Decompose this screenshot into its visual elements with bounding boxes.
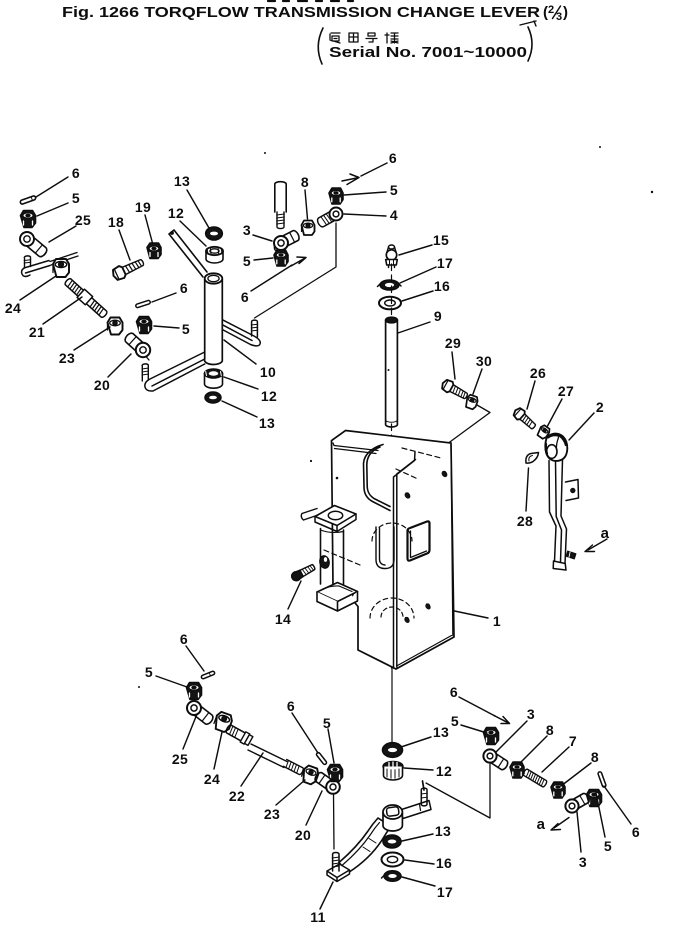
leader 5 — [37, 203, 68, 216]
thin rod from bracket — [50, 253, 78, 266]
small stud at lever 2 foot (dark) — [566, 551, 576, 559]
svg-text:8: 8 — [301, 174, 309, 190]
housing hem along top-left — [333, 443, 378, 454]
leader 6 — [292, 713, 318, 753]
leader 13 — [187, 190, 209, 228]
svg-text:17: 17 — [437, 884, 453, 900]
leader 13 — [401, 737, 431, 747]
svg-text:20: 20 — [295, 827, 311, 843]
svg-text:): ) — [563, 4, 568, 21]
leader 1 — [455, 611, 489, 618]
rod 9 — [386, 317, 398, 427]
nut 5 (top-left, dark) — [21, 211, 36, 228]
arrow 6 (pointing down-right) + leader — [459, 697, 510, 724]
leader 8 — [305, 190, 308, 219]
svg-text:20: 20 — [94, 377, 110, 393]
ring 13 (below lever 11, dark) — [383, 835, 401, 848]
washer 16 (bottom) — [382, 853, 404, 867]
svg-text:17: 17 — [437, 255, 453, 271]
svg-text:6: 6 — [180, 280, 188, 296]
svg-text:18: 18 — [108, 214, 124, 230]
leader 23 — [276, 780, 305, 805]
leader 17 b — [402, 877, 435, 886]
leader 14 — [288, 581, 301, 609]
bracket under 25 with stud — [22, 256, 50, 277]
svg-text:6: 6 — [180, 631, 188, 647]
kanji 機 (drawn) — [385, 33, 398, 43]
screw 7 (threaded stud) — [522, 768, 547, 787]
nut 27 — [536, 424, 551, 440]
kanji 適 (drawn) — [330, 33, 340, 43]
left arm of 10 with stud — [142, 352, 205, 391]
housing holes on right face — [403, 470, 448, 624]
svg-text:5: 5 — [451, 713, 459, 729]
nut 5 (bottom-left, dark) — [187, 683, 202, 700]
nut 5 (mid, dark) — [137, 317, 152, 334]
svg-text:19: 19 — [135, 199, 151, 215]
nut 8 (top) — [302, 221, 315, 236]
svg-text:5: 5 — [390, 182, 398, 198]
svg-text:12: 12 — [168, 205, 184, 221]
svg-text:26: 26 — [530, 365, 546, 381]
svg-text:3: 3 — [579, 854, 587, 870]
pin 28 (cotter clip) — [526, 453, 539, 464]
pin 6 (bottom-left) — [201, 671, 215, 680]
leader 3 a — [496, 721, 527, 752]
svg-text:7: 7 — [569, 733, 577, 749]
lever 11 boss (pivot cylinder) — [383, 805, 402, 831]
leader 27 — [547, 399, 562, 427]
leader 7 — [542, 747, 569, 772]
pin 6 (mid-left) — [135, 300, 150, 308]
svg-text:12: 12 — [436, 763, 452, 779]
svg-text:Fig. 1266 TORQFLOW TRANSMI: Fig. 1266 TORQFLOW TRANSMISSION CHANGE L… — [62, 4, 540, 21]
leader 29 — [452, 352, 455, 379]
bushing 12 (below tube) — [205, 369, 223, 388]
cropped text remnants at very top — [268, 0, 353, 2]
leader 20 — [306, 791, 322, 825]
svg-text:3: 3 — [556, 11, 562, 23]
pin 6 (above 20 bottom) — [316, 752, 327, 765]
svg-text:27: 27 — [558, 383, 574, 399]
leader 12 (tube) — [224, 377, 258, 389]
flange side bracket step — [301, 509, 318, 521]
leader 16 — [402, 291, 433, 301]
svg-text:25: 25 — [172, 751, 188, 767]
svg-text:8: 8 — [546, 722, 554, 738]
svg-text:15: 15 — [433, 232, 449, 248]
washer 16 (top) — [379, 297, 401, 310]
bushing 12 (below ring, knurled) — [383, 762, 403, 781]
ring 13 (below tube, dark) — [205, 392, 221, 403]
bolt 26 — [512, 406, 538, 431]
dashed arc (bottom inner) — [381, 607, 403, 617]
arrow 6 (mid, pointing up-right) + leader — [251, 257, 306, 291]
svg-text:1: 1 — [493, 613, 501, 629]
svg-text:9: 9 — [434, 308, 442, 324]
rod 22 (long link rod) — [224, 723, 304, 775]
svg-text:5: 5 — [323, 715, 331, 731]
svg-text:5: 5 — [72, 190, 80, 206]
big right paren of subtitle — [528, 27, 532, 61]
pin 6 f (steep) — [598, 771, 607, 787]
svg-text:14: 14 — [275, 611, 291, 627]
nut 24 (bottom) — [212, 711, 233, 733]
svg-text:16: 16 — [436, 855, 452, 871]
svg-text:23: 23 — [59, 350, 75, 366]
dashed arc (bottom outer) — [370, 598, 414, 618]
nut 5 c (dark) — [484, 728, 499, 745]
small dot hole on front face — [336, 477, 339, 480]
leader 13 (tube) — [222, 401, 257, 417]
svg-text:2: 2 — [596, 399, 604, 415]
rod end 25 (bottom) — [187, 701, 215, 726]
leader 6 — [186, 646, 204, 671]
notch right edge and fold corner verticals — [394, 452, 416, 668]
washer 17 (bottom, slotted) — [382, 871, 402, 882]
nut 5 (below 3, dark) — [274, 250, 288, 266]
leader 15 — [399, 245, 432, 255]
leader 20 — [108, 354, 131, 377]
leader 6 — [36, 177, 68, 197]
leader 9 — [398, 322, 430, 333]
svg-text:12: 12 — [261, 388, 277, 404]
handle bar of lever 10 — [169, 230, 207, 277]
svg-text:5: 5 — [145, 664, 153, 680]
leader 25 — [183, 714, 197, 749]
leader 5 — [328, 729, 334, 763]
leader 26 — [527, 381, 535, 409]
svg-text:13: 13 — [259, 415, 275, 431]
svg-text:11: 11 — [310, 909, 326, 925]
leader 16 b — [405, 860, 434, 864]
rod end 3 a — [483, 749, 509, 771]
ring 13 (below housing, dark) — [383, 743, 403, 758]
rod end 20 (bottom) — [313, 771, 339, 794]
housing 1 outline — [332, 431, 455, 670]
assembly line from 4 to arm stud — [255, 223, 337, 318]
svg-text:10: 10 — [260, 364, 276, 380]
dashed arc (mid) — [372, 523, 412, 541]
leader 5 f — [596, 793, 605, 837]
svg-text:6: 6 — [632, 824, 640, 840]
nut 19 (dark) — [147, 243, 161, 259]
leader 19 — [145, 215, 153, 245]
leader 12 — [404, 768, 433, 770]
stud on lever 11 right end — [421, 781, 427, 806]
svg-text:3: 3 — [527, 706, 535, 722]
slotted washer 17 (top) — [378, 280, 402, 290]
rod end 3 (top) — [274, 229, 301, 251]
svg-text:5: 5 — [243, 253, 251, 269]
interior slot seen through notch — [376, 527, 394, 569]
column flange (top square) — [315, 506, 356, 532]
leader 25 — [49, 226, 76, 242]
nut 8 b (dark) — [551, 782, 565, 798]
lever 11 right arm and end pad — [400, 801, 431, 819]
dashed hidden line near column — [324, 550, 360, 565]
svg-text:13: 13 — [435, 823, 451, 839]
svg-text:25: 25 — [75, 212, 91, 228]
stud on lever 11 left pad — [332, 853, 339, 871]
stray mark above right paren — [520, 21, 536, 26]
pin 6 (top-left) — [20, 195, 36, 204]
window on right face — [408, 521, 430, 560]
leader 5 — [254, 258, 273, 260]
leader 13 b — [402, 834, 433, 841]
leader 8 b — [561, 763, 591, 786]
assembly line 3a to lever 11 stud — [426, 763, 490, 818]
leader 6 f — [604, 786, 631, 824]
handle rod (threaded lower end) — [275, 182, 286, 229]
housing notch (cut-out) — [364, 445, 391, 511]
lever 2 body — [549, 460, 579, 571]
nut 23 (bottom) — [300, 764, 320, 785]
lever 2 boss — [545, 434, 567, 461]
nut 23 (outlined) — [108, 318, 123, 335]
stray scan specks — [651, 191, 653, 193]
leader 21 — [43, 297, 82, 324]
kanji 用 (drawn) — [349, 33, 358, 42]
lever 11 S-bar — [339, 818, 391, 873]
svg-text:a: a — [537, 816, 546, 833]
knob 15 — [386, 245, 398, 268]
nut 5 f (dark) — [587, 790, 602, 807]
big left paren of subtitle — [318, 28, 323, 64]
housing right edge inner line — [398, 445, 453, 666]
svg-text:24: 24 — [5, 300, 21, 316]
screw 14 — [290, 563, 316, 583]
svg-text:6: 6 — [450, 684, 458, 700]
nut 5 (above 20 bottom, dark) — [328, 765, 343, 782]
assembly line 20 to lever 11 stud — [333, 794, 336, 849]
svg-text:21: 21 — [29, 324, 45, 340]
svg-text:8: 8 — [591, 749, 599, 765]
leader 30 — [473, 369, 482, 394]
leader 2 — [569, 413, 594, 440]
leader 4 — [344, 214, 386, 216]
leader 5 mid — [154, 326, 179, 328]
tube of part 10 — [204, 273, 222, 364]
assembly line 30 to housing — [443, 405, 490, 447]
bushing 12 (top) — [206, 247, 223, 263]
leader 11 — [320, 882, 333, 909]
leader 24 — [20, 276, 56, 300]
svg-text:13: 13 — [433, 724, 449, 740]
arrow a (bottom, pointing down-left) — [551, 818, 569, 831]
svg-text:Serial No. 7001~10000: Serial No. 7001~10000 — [329, 44, 527, 61]
bolt 18 — [111, 256, 146, 282]
svg-text:23: 23 — [264, 806, 280, 822]
nut 30 — [464, 394, 479, 410]
dashed centerline (upper) — [391, 264, 393, 668]
lever 11 left pad — [327, 864, 350, 882]
leader 18 — [119, 230, 130, 260]
svg-text:22: 22 — [229, 788, 245, 804]
leader 3 b — [577, 812, 581, 852]
nut 5 (top, dark) — [329, 188, 343, 204]
arrow a (upper right) — [585, 539, 607, 552]
leader 5 — [156, 676, 187, 687]
leader 3 — [253, 235, 272, 241]
right arm of 10 with stud — [223, 320, 261, 346]
rod end 4 (threaded shank) — [316, 208, 342, 229]
bolt 29 — [440, 378, 470, 402]
svg-text:5: 5 — [182, 321, 190, 337]
svg-text:a: a — [601, 525, 610, 542]
dashed hidden lines top right — [402, 448, 443, 459]
arrow 6 (top, pointing right) + leader — [342, 163, 387, 185]
rod 21 (threaded both ends) — [63, 277, 109, 320]
svg-text:24: 24 — [204, 771, 220, 787]
svg-text:2: 2 — [548, 4, 554, 16]
leader 24 — [214, 732, 222, 769]
leader 5 c — [461, 725, 487, 733]
svg-text:30: 30 — [476, 353, 492, 369]
svg-text:3: 3 — [243, 222, 251, 238]
svg-text:4: 4 — [390, 207, 398, 223]
rod end 20 (top) — [123, 332, 150, 360]
column base block — [317, 583, 358, 612]
svg-text:6: 6 — [241, 289, 249, 305]
leader 23 — [74, 327, 110, 350]
svg-text:6: 6 — [287, 698, 295, 714]
leader 10 — [224, 340, 256, 364]
leader 5 top — [344, 192, 386, 195]
kanji 号 (drawn) — [366, 33, 377, 42]
nut 8 a (dark) — [510, 762, 524, 778]
leader 6 mid — [152, 293, 176, 302]
svg-text:16: 16 — [434, 278, 450, 294]
svg-text:6: 6 — [72, 165, 80, 181]
rod end 3 b — [565, 792, 590, 812]
link 25 (rod end lever) — [20, 232, 49, 258]
svg-text:29: 29 — [445, 335, 461, 351]
leader 12 — [180, 221, 206, 246]
leader 28 — [526, 468, 529, 511]
svg-text:5: 5 — [604, 838, 612, 854]
nut 24 (outlined) — [53, 259, 69, 277]
svg-text:13: 13 — [174, 173, 190, 189]
leader 22 — [241, 753, 263, 786]
leader 17 — [400, 267, 436, 283]
column body — [319, 529, 344, 588]
svg-text:28: 28 — [517, 513, 533, 529]
svg-text:6: 6 — [389, 150, 397, 166]
ring 13 (top, dark) — [206, 227, 223, 240]
leader 8 a — [520, 736, 547, 763]
